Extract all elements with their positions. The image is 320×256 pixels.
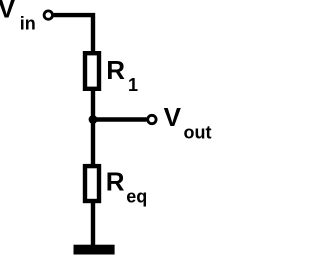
wire Req to ground — [91, 201, 95, 247]
terminal Vin — [44, 11, 52, 19]
svg-text:R: R — [106, 55, 125, 85]
resistor R1 label — [106, 55, 138, 95]
node Vout label — [164, 102, 212, 143]
ground — [74, 245, 115, 255]
node Vin label — [0, 0, 36, 34]
svg-text:eq: eq — [126, 187, 147, 207]
resistor Req body — [85, 166, 99, 201]
svg-text:R: R — [106, 167, 125, 197]
wire output node to Vout terminal — [93, 117, 147, 121]
wire R1 to Req (through output node) — [91, 89, 95, 166]
svg-text:out: out — [184, 123, 212, 143]
svg-text:V: V — [164, 102, 182, 132]
node junction dot — [89, 115, 98, 124]
resistor R1 body — [85, 53, 99, 89]
terminal Vout — [148, 115, 156, 123]
wire Vin terminal to corner and down to R1 — [54, 15, 93, 55]
svg-text:V: V — [0, 0, 16, 24]
svg-text:1: 1 — [128, 75, 138, 95]
resistor Req label — [106, 167, 148, 207]
svg-text:in: in — [20, 14, 36, 34]
